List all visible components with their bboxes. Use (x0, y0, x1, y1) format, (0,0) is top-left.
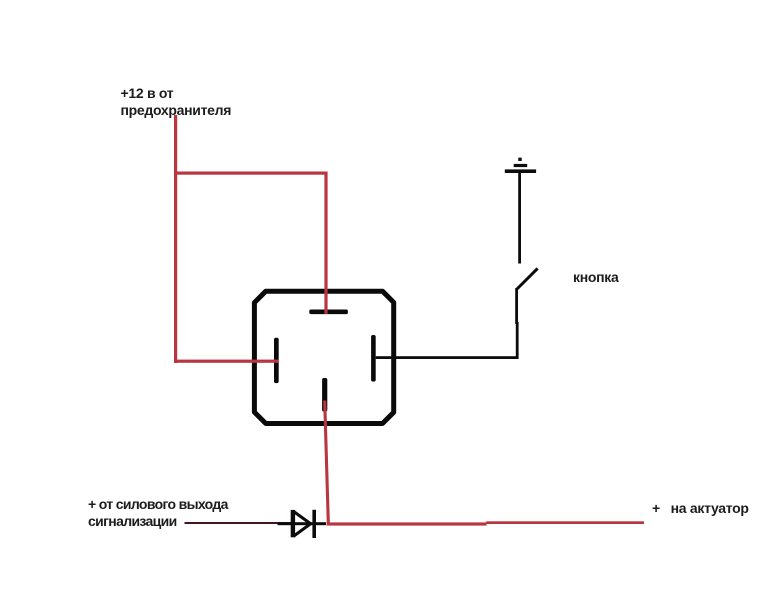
relay pin 86 (top bar) (309, 310, 348, 315)
relay pin 87 (bottom bar) (322, 378, 327, 412)
wire red horizontal bottom to actuator (right segment) (486, 521, 644, 524)
label button (кнопка) (573, 269, 618, 286)
diode D1 cathode bar (312, 510, 316, 538)
label + to actuator (652, 500, 749, 517)
diode D1 (triangle) (291, 510, 311, 537)
wire black diode lead (278, 522, 327, 525)
wire dark maroon from alarm label to diode anode (185, 522, 292, 524)
wire red vertical down into relay pin 86 (324, 172, 327, 314)
wire red vertical from fuse label down to relay left pin level (174, 115, 177, 363)
label +12V from fuse (121, 85, 232, 119)
wire black button upper lead (518, 172, 521, 264)
wire red horizontal bottom to actuator (left segment) (327, 522, 487, 525)
wire red vertical from relay pin 87 down to diode junction (325, 401, 329, 524)
relay pin 85 (right bar) (371, 335, 376, 382)
wire black from relay pin 85 to button (376, 356, 518, 359)
wire red horizontal upper branch (174, 172, 328, 175)
relay pin 30 (left bar) (274, 338, 279, 383)
ground symbol (chassis, pointing up) (505, 158, 536, 173)
relay K1 body (254, 291, 393, 423)
wire black button lower lead (515, 288, 518, 359)
wire red horizontal into relay pin 30 (174, 360, 279, 363)
switch S1 lever (кнопка) (517, 268, 538, 289)
label + from alarm power output (88, 496, 228, 530)
